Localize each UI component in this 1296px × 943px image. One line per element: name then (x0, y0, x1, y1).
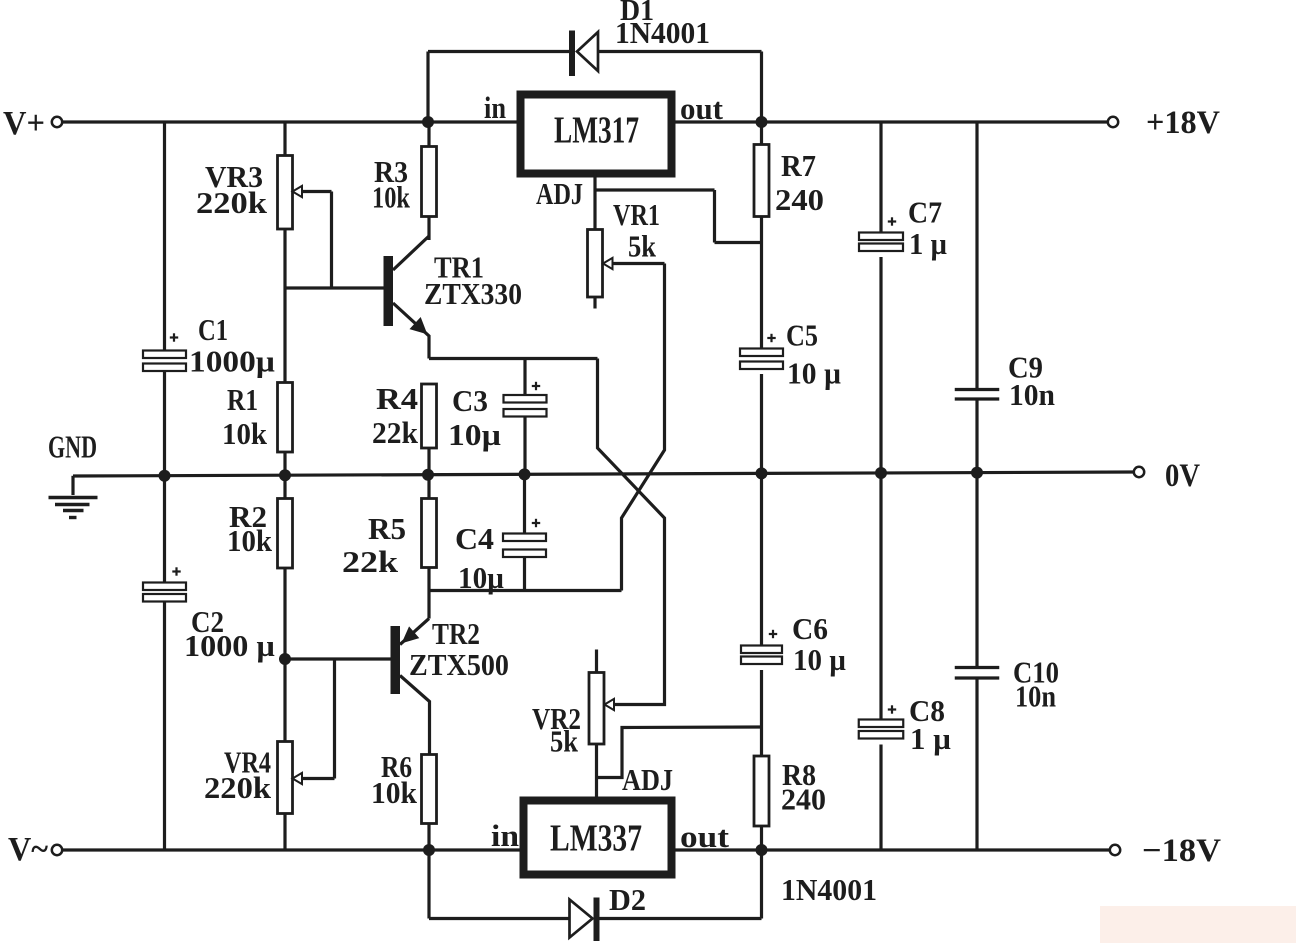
svg-text:1000 µ: 1000 µ (184, 628, 275, 663)
svg-text:ZTX500: ZTX500 (409, 647, 509, 682)
svg-text:V+: V+ (3, 105, 45, 142)
svg-text:GND: GND (48, 429, 97, 465)
svg-text:10 µ: 10 µ (793, 642, 846, 677)
svg-text:10µ: 10µ (448, 417, 501, 452)
svg-text:C4: C4 (455, 521, 494, 556)
svg-text:−18V: −18V (1142, 833, 1221, 869)
svg-text:10k: 10k (222, 416, 268, 451)
svg-text:ADJ: ADJ (622, 762, 673, 797)
svg-text:22k: 22k (372, 415, 419, 450)
svg-text:10n: 10n (1009, 377, 1055, 412)
svg-text:10k: 10k (227, 523, 273, 558)
svg-text:10k: 10k (372, 180, 411, 215)
svg-text:240: 240 (775, 182, 824, 217)
svg-text:22k: 22k (342, 544, 399, 579)
svg-text:C6: C6 (792, 611, 828, 646)
svg-text:C7: C7 (908, 195, 942, 230)
svg-text:R7: R7 (781, 148, 816, 183)
svg-text:ZTX330: ZTX330 (424, 276, 522, 311)
svg-text:in: in (491, 818, 519, 853)
svg-text:TR2: TR2 (432, 616, 480, 651)
svg-text:LM317: LM317 (554, 110, 639, 152)
svg-text:R1: R1 (227, 382, 258, 417)
svg-text:10n: 10n (1015, 679, 1056, 714)
svg-text:D2: D2 (609, 882, 646, 917)
svg-text:1 µ: 1 µ (910, 721, 951, 756)
svg-text:1 µ: 1 µ (909, 226, 947, 261)
svg-text:5k: 5k (628, 229, 657, 264)
svg-text:C3: C3 (452, 383, 488, 418)
svg-text:LM337: LM337 (550, 818, 642, 860)
svg-text:1000µ: 1000µ (189, 344, 275, 379)
svg-text:VR1: VR1 (613, 197, 660, 232)
svg-text:ADJ: ADJ (536, 176, 583, 211)
svg-text:10k: 10k (371, 775, 418, 810)
svg-text:0V: 0V (1165, 458, 1200, 494)
svg-text:out: out (680, 91, 724, 126)
svg-text:5k: 5k (550, 724, 579, 759)
svg-text:10 µ: 10 µ (787, 356, 841, 391)
svg-text:1N4001: 1N4001 (781, 872, 877, 907)
svg-text:R5: R5 (368, 511, 406, 546)
svg-text:C5: C5 (786, 318, 818, 353)
svg-text:220k: 220k (204, 770, 272, 805)
svg-text:240: 240 (781, 782, 826, 817)
svg-text:V~: V~ (8, 831, 48, 868)
svg-text:C1: C1 (198, 312, 228, 347)
svg-text:out: out (680, 819, 730, 854)
svg-text:220k: 220k (196, 185, 268, 220)
svg-text:10µ: 10µ (458, 560, 504, 595)
svg-text:R4: R4 (376, 381, 418, 416)
svg-text:1N4001: 1N4001 (615, 15, 710, 50)
svg-text:in: in (484, 90, 506, 125)
svg-text:+18V: +18V (1146, 105, 1220, 141)
